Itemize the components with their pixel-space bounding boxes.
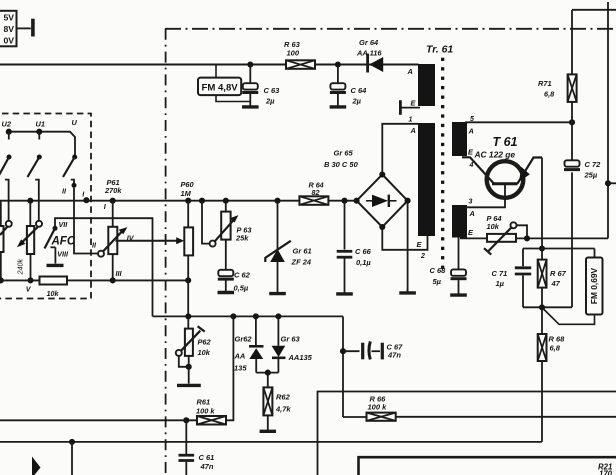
svg-text:AA 116: AA 116 [356, 49, 382, 58]
wire node top [523, 249, 595, 258]
svg-text:C 68: C 68 [430, 266, 447, 275]
wiper P62 [176, 326, 205, 356]
wire winding4 to P64 [460, 237, 487, 239]
ground bridge [399, 289, 416, 293]
wire diode common [256, 370, 278, 376]
wire main rail [0, 200, 357, 202]
potentiometer left (cut) [0, 201, 4, 281]
supply terminal [17, 19, 33, 37]
ground R62 [260, 415, 276, 431]
switch U blade [63, 155, 77, 178]
node Gr63 top [275, 313, 281, 319]
diode Gr63 AA135 [272, 316, 313, 372]
terminal VIII [51, 247, 69, 263]
wire P64 to tap [516, 237, 608, 239]
wire switch rail [9, 132, 75, 156]
node V240k [27, 198, 33, 204]
wire stub down [71, 442, 73, 475]
wire rail 442 [0, 439, 542, 445]
capacitor C62 [218, 270, 251, 293]
svg-text:AC 122 ge: AC 122 ge [474, 150, 516, 160]
wire rail 316 [153, 315, 344, 317]
wire IV [116, 234, 185, 245]
node C64 junction [335, 61, 341, 67]
svg-text:Gr 64: Gr 64 [359, 38, 379, 47]
svg-text:VIII: VIII [57, 250, 69, 259]
node U1 top [36, 129, 42, 140]
switch AFC contact VII [53, 220, 69, 231]
label Tr. 61 [426, 44, 453, 56]
svg-text:U1: U1 [36, 120, 45, 129]
T61 emitter [517, 158, 542, 184]
svg-text:1M: 1M [181, 189, 192, 198]
svg-text:FM 0,69V: FM 0,69V [589, 267, 599, 304]
T61 base [466, 184, 505, 208]
capacitor C67 [340, 341, 403, 359]
svg-text:4,7k: 4,7k [275, 405, 291, 414]
contact U1 lower [35, 180, 39, 222]
svg-text:C 72: C 72 [585, 160, 602, 169]
switch U1 blade [28, 155, 42, 178]
ground C62 [218, 280, 235, 293]
ground C66 [336, 259, 353, 294]
ground P62 [177, 384, 201, 387]
pin A label w4 [469, 209, 475, 218]
svg-text:1: 1 [409, 117, 413, 124]
ground Gr61 [269, 262, 286, 294]
node P60 top [185, 198, 191, 204]
module box R210 [359, 457, 616, 475]
node P61 top [110, 198, 116, 204]
wire P62 wiper short [179, 356, 192, 370]
wire rail 392 [318, 392, 616, 475]
measure box FM 0,69V [543, 258, 603, 325]
svg-text:IV: IV [127, 234, 135, 243]
wire tap line [605, 2, 616, 238]
zener Gr61 ZF24 [265, 201, 312, 267]
potentiometer P62 [185, 316, 212, 357]
svg-text:6,8: 6,8 [544, 90, 555, 99]
wiper P64 [484, 222, 530, 254]
node Gr62 top [253, 313, 259, 319]
resistor R67 [538, 249, 567, 308]
capacitor C61 [179, 420, 215, 475]
svg-text:8V: 8V [3, 24, 14, 34]
resistor R68 [538, 307, 565, 361]
transistor T61 body [474, 135, 524, 198]
svg-text:5µ: 5µ [433, 277, 442, 286]
svg-text:100: 100 [287, 49, 300, 58]
svg-text:2: 2 [420, 253, 425, 260]
svg-text:C 71: C 71 [492, 269, 508, 278]
capacitor C68 [430, 238, 467, 287]
svg-text:R62: R62 [276, 393, 291, 402]
potentiometer P64 [487, 214, 517, 242]
resistor R62 [263, 373, 291, 416]
svg-text:0V: 0V [3, 35, 14, 45]
svg-text:A: A [407, 67, 413, 76]
wire lower rail [0, 279, 188, 281]
ground C68 [450, 280, 467, 295]
switch U2 blade [0, 155, 12, 178]
capacitor C64 [330, 65, 367, 106]
svg-text:10k: 10k [198, 348, 211, 357]
wire VII box [55, 218, 153, 316]
potentiometer P60 [181, 180, 195, 280]
svg-text:R71: R71 [538, 79, 552, 88]
node Gr61 top [274, 198, 280, 204]
svg-text:Gr62: Gr62 [235, 335, 253, 344]
resistor 10k fixed [40, 277, 68, 299]
pin E label w3 [468, 148, 474, 157]
resistor R64 [299, 181, 328, 205]
svg-text:VII: VII [59, 220, 69, 229]
node P62 top [185, 313, 191, 319]
pin 1 label [409, 117, 413, 124]
pin E terminal w1 [400, 99, 420, 115]
pin 2 label [420, 253, 425, 260]
svg-text:25µ: 25µ [584, 171, 598, 180]
wire R68 down [541, 361, 543, 442]
node R67 bottom [539, 304, 545, 310]
pin E label w4 [468, 228, 474, 237]
diode Gr62 AA135 [234, 316, 264, 372]
resistor R61 [196, 398, 226, 425]
transformer core [441, 58, 444, 269]
svg-text:1µ: 1µ [496, 279, 505, 288]
wire P62 bottom [188, 356, 190, 384]
svg-text:100 k: 100 k [196, 407, 215, 416]
svg-text:170: 170 [599, 470, 613, 475]
svg-text:Tr. 61: Tr. 61 [426, 44, 453, 56]
pin A label w2 [410, 126, 416, 135]
capacitor C63 [242, 65, 280, 106]
label U [72, 118, 78, 127]
pin 5 label [470, 116, 474, 123]
svg-text:100 k: 100 k [368, 403, 388, 412]
transformer winding 3 (right top) [452, 122, 467, 156]
dashed switch-unit box [0, 114, 91, 299]
svg-text:AFC: AFC [51, 236, 76, 248]
capacitor C66 [337, 201, 372, 267]
svg-text:P60: P60 [181, 180, 195, 189]
label V [26, 285, 32, 294]
wire II to P61 wiper [74, 188, 98, 254]
svg-text:C 66: C 66 [355, 247, 372, 256]
svg-text:Gr 61: Gr 61 [293, 247, 312, 256]
svg-text:82: 82 [312, 188, 320, 197]
switch AFC blade [45, 228, 76, 248]
node left pot bottom [0, 277, 4, 283]
wiper P61 [92, 227, 127, 257]
svg-text:ZF 24: ZF 24 [291, 258, 312, 267]
node R61 left [183, 417, 189, 423]
svg-text:III: III [116, 269, 123, 278]
capacitor C71 [492, 249, 543, 308]
svg-text:A: A [469, 209, 475, 218]
svg-text:10k: 10k [47, 289, 60, 298]
transformer winding 1 (left top) [418, 64, 435, 106]
pin A label w3 [468, 127, 474, 136]
svg-text:FM 4,8V: FM 4,8V [201, 83, 238, 94]
svg-text:0,1µ: 0,1µ [356, 258, 371, 267]
svg-text:C 61: C 61 [199, 453, 215, 462]
wire w2 bottom to bridge [382, 227, 427, 250]
svg-text:A: A [468, 127, 474, 136]
wire R66 right [396, 416, 616, 418]
svg-text:270k: 270k [104, 186, 122, 195]
node P60 bottom [185, 277, 191, 283]
resistor R66 [343, 395, 396, 421]
wire w2 top to bridge [382, 124, 418, 174]
node R67 top [539, 245, 545, 251]
svg-text:P62: P62 [198, 338, 212, 347]
label U1 [36, 120, 45, 129]
supply box 5V/8V/0V [0, 11, 17, 47]
svg-text:U: U [72, 118, 78, 127]
pin 3 label [469, 199, 473, 206]
svg-text:2µ: 2µ [352, 97, 362, 106]
svg-text:R61: R61 [197, 398, 211, 407]
wiper 240k [17, 221, 42, 248]
ground AFC [47, 264, 64, 267]
svg-text:C 62: C 62 [234, 271, 251, 280]
svg-text:47n: 47n [200, 462, 214, 471]
svg-text:Gr 63: Gr 63 [281, 335, 301, 344]
transformer winding 4 (right bottom) [452, 205, 467, 238]
node C63 junction [247, 61, 253, 67]
svg-text:6,8: 6,8 [550, 344, 561, 353]
node R61 link [230, 313, 236, 319]
wire R61 up [226, 316, 234, 420]
wire emitter down [541, 158, 543, 249]
svg-text:2µ: 2µ [265, 97, 275, 106]
svg-text:3: 3 [469, 199, 473, 206]
wire pin5 to R71 [465, 119, 575, 125]
ground C64 [330, 94, 347, 107]
svg-text:C 64: C 64 [351, 86, 368, 95]
svg-text:47n: 47n [387, 351, 401, 360]
potentiometer P61 [104, 178, 122, 280]
wire top rail [0, 64, 419, 66]
svg-text:Gr 65: Gr 65 [334, 149, 354, 158]
svg-text:AA135: AA135 [288, 353, 313, 362]
pin E label w2 [417, 240, 423, 249]
potentiometer P63 [221, 201, 252, 270]
svg-text:C 63: C 63 [264, 86, 281, 95]
node C66 top [341, 198, 347, 204]
node P63 wiper [199, 198, 205, 204]
arrow fragment [32, 457, 41, 475]
capacitor C72 [564, 122, 601, 307]
wire rail 420 [0, 419, 197, 421]
measure box FM 4,8V [198, 65, 250, 102]
svg-text:240k: 240k [16, 259, 25, 276]
svg-text:10k: 10k [487, 222, 500, 231]
svg-text:T 61: T 61 [493, 135, 518, 149]
T61 collector [462, 157, 494, 184]
wiper left pot [0, 221, 12, 235]
label III [116, 269, 123, 278]
node P63 top [223, 198, 229, 204]
resistor R63 [284, 40, 315, 69]
node I marker [83, 197, 89, 203]
bridge rectifier Gr65 [324, 149, 411, 231]
wire bridge right to ground [407, 201, 409, 291]
contact U2 lower [5, 180, 9, 222]
svg-text:4: 4 [469, 162, 474, 169]
ground C63 [242, 94, 259, 107]
svg-text:A: A [410, 126, 416, 135]
svg-text:0,5µ: 0,5µ [234, 284, 249, 293]
contact II [71, 180, 77, 188]
label I right [104, 202, 107, 211]
svg-text:U2: U2 [2, 120, 12, 129]
node 240k bottom [27, 277, 33, 283]
svg-text:25k: 25k [235, 234, 249, 243]
label II [62, 187, 67, 196]
svg-text:B 30 C 50: B 30 C 50 [324, 160, 359, 169]
svg-text:R 68: R 68 [549, 335, 566, 344]
potentiometer 240k [16, 201, 35, 281]
dash-dot module border top [165, 28, 616, 30]
pin A label w1 [407, 67, 413, 76]
resistor R71 [538, 10, 616, 123]
node P61 bottom [110, 277, 116, 283]
svg-text:R 67: R 67 [550, 269, 567, 278]
wire rail 316 corner down [342, 316, 344, 417]
dash-dot module border left [165, 29, 167, 475]
svg-text:AA: AA [234, 352, 246, 361]
diode Gr64 AA116 [356, 38, 383, 73]
transformer winding 2 (left bottom) [418, 123, 435, 236]
svg-text:135: 135 [234, 364, 247, 373]
wiper P63 [202, 201, 238, 247]
wire C72 branch to node [542, 306, 572, 308]
wire P60 down [187, 280, 189, 316]
svg-text:5V: 5V [3, 13, 14, 23]
label I left [82, 190, 85, 199]
pin 4 label [469, 162, 474, 169]
label U2 [2, 120, 12, 129]
svg-text:47: 47 [551, 279, 561, 288]
node U2 top [6, 129, 12, 140]
